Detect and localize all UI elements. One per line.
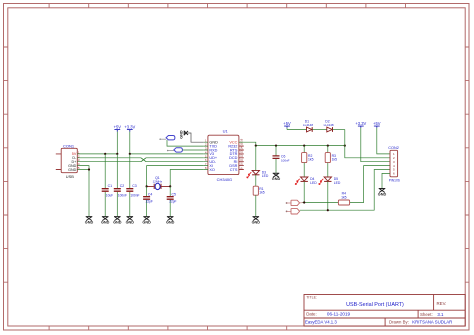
ground (C4) — [143, 217, 150, 221]
power flag +5V (diode feed) — [283, 121, 306, 130]
wire crossover X — [141, 158, 146, 162]
ground (CON2) — [379, 189, 386, 193]
svg-text:3.1: 3.1 — [437, 312, 444, 317]
svg-text:+3.3V: +3.3V — [355, 121, 366, 126]
svg-text:C3: C3 — [132, 184, 137, 188]
wire R4 row — [303, 166, 391, 203]
ground (C5) — [167, 217, 174, 221]
power flag +3.3V (left) — [124, 124, 135, 154]
resistor R1 — [253, 186, 265, 216]
power flag +5V (left) — [114, 124, 122, 154]
node 5V-C2 — [116, 153, 118, 155]
capacitor C5 — [167, 186, 177, 216]
svg-text:LED: LED — [310, 181, 317, 185]
svg-text:Sheet:: Sheet: — [420, 312, 433, 317]
svg-text:CH340G: CH340G — [217, 177, 233, 182]
svg-text:TITLE:: TITLE: — [306, 296, 317, 300]
svg-text:XO: XO — [209, 168, 215, 172]
svg-text:U1: U1 — [223, 129, 229, 134]
svg-text:C5: C5 — [172, 192, 177, 196]
svg-text:CON2: CON2 — [388, 146, 399, 150]
svg-text:22pF: 22pF — [146, 200, 153, 204]
wire XI from U1 to crystal — [147, 166, 204, 187]
ground (U1 pin1, sideways) — [180, 130, 188, 139]
svg-text:06-11-2019: 06-11-2019 — [327, 311, 351, 316]
ground (C2) — [114, 217, 121, 221]
power flag +5V (right) — [373, 121, 390, 154]
svg-text:1k5: 1k5 — [308, 158, 314, 162]
diode D2 LL4148 — [324, 120, 345, 132]
svg-text:LED: LED — [262, 174, 269, 178]
resistor R4 — [338, 192, 349, 205]
net flag RXD — [167, 148, 204, 152]
ground (C6) — [273, 173, 280, 177]
capacitor C3 — [126, 154, 139, 216]
wire XO from U1 to crystal — [170, 170, 204, 187]
wire 5V net — [77, 153, 117, 155]
svg-text:100nF: 100nF — [130, 193, 139, 197]
wire V3 net row — [130, 153, 204, 155]
svg-text:22pF: 22pF — [169, 200, 176, 204]
svg-text:C2: C2 — [120, 184, 125, 188]
svg-text:CTS: CTS — [230, 168, 238, 172]
LED D3 — [247, 146, 269, 187]
node 5V-C1 — [104, 153, 106, 155]
node CON1 gnd junction — [88, 168, 90, 170]
ground (R1) — [253, 217, 260, 221]
svg-text:+5V: +5V — [373, 121, 381, 126]
wire second flag row to CON2 pin5 — [300, 170, 390, 211]
ground (C1) — [102, 217, 109, 221]
LED D5 — [319, 177, 341, 210]
node D4 to flag row — [303, 201, 305, 203]
net flag TXD — [159, 136, 203, 147]
svg-text:+3.3V: +3.3V — [124, 124, 135, 129]
wire U1 GND pin to sideways ground — [188, 133, 204, 142]
node VCC-R2 — [303, 145, 305, 147]
ground (CON1) — [86, 217, 93, 221]
svg-text:LED: LED — [334, 181, 341, 185]
svg-text:100nF: 100nF — [281, 158, 290, 162]
capacitor C1 — [102, 154, 113, 216]
svg-text:GND: GND — [68, 168, 77, 172]
node VCC-R3 — [327, 145, 329, 147]
svg-text:GND: GND — [180, 130, 184, 139]
capacitor C2 — [114, 154, 127, 216]
wire CON2 pin6 to ground — [382, 173, 390, 188]
power flag +3.3V (right) — [355, 121, 390, 162]
node V3-C3 — [129, 153, 131, 155]
ground (C3) — [127, 217, 134, 221]
svg-text:+5V: +5V — [114, 124, 122, 129]
svg-text:Drawn By:: Drawn By: — [389, 319, 409, 324]
svg-text:PIN1X6: PIN1X6 — [389, 178, 400, 182]
svg-text:LL4148: LL4148 — [303, 123, 313, 127]
node D5 to flag row — [327, 209, 329, 211]
wire CON1 GND pins to ground — [77, 166, 89, 217]
svg-text:USB: USB — [66, 174, 74, 179]
TITLE-BLOCK — [304, 295, 465, 327]
IC U1 CH340G — [204, 129, 244, 182]
svg-text:EasyEDA V4.1.3: EasyEDA V4.1.3 — [305, 319, 337, 324]
net flag (to second row) — [286, 209, 300, 214]
svg-text:C1: C1 — [108, 184, 113, 188]
svg-text:LL4148: LL4148 — [324, 123, 334, 127]
svg-text:USB-Serial Port (UART): USB-Serial Port (UART) — [346, 302, 404, 308]
svg-text:Date:: Date: — [306, 311, 317, 316]
svg-text:GND: GND — [272, 177, 281, 181]
wire diode output to VCC node and CON2 pin2 — [345, 130, 390, 158]
capacitor C6 — [273, 146, 290, 173]
crystal Q1 12MHz — [147, 176, 171, 189]
svg-text:C4: C4 — [148, 192, 153, 196]
wire UD- row — [146, 161, 204, 163]
svg-text:GND: GND — [378, 192, 387, 196]
connector CON1 — [56, 143, 80, 179]
svg-text:GND: GND — [85, 221, 94, 225]
node VCC-C6 — [275, 145, 277, 147]
node VCC-D3 — [255, 145, 257, 147]
capacitor C4 — [143, 186, 153, 216]
svg-text:1k5: 1k5 — [259, 191, 265, 195]
svg-text:GND: GND — [252, 221, 261, 225]
svg-text:GND: GND — [166, 221, 175, 225]
svg-text:GND: GND — [126, 221, 135, 225]
svg-text:GND: GND — [142, 221, 151, 225]
wire VCC net from U1 — [244, 142, 345, 145]
svg-text:CON1: CON1 — [63, 143, 75, 148]
svg-text:100nF: 100nF — [118, 193, 127, 197]
svg-text:GND: GND — [101, 221, 110, 225]
wire D- to crossover — [77, 157, 141, 159]
svg-text:+5V: +5V — [283, 121, 291, 126]
svg-text:KRITSANA SUDLAR: KRITSANA SUDLAR — [412, 319, 452, 324]
node crystal right — [169, 185, 171, 187]
resistor R3 — [325, 146, 337, 177]
node crystal left — [146, 185, 148, 187]
node VCC-diode feed — [344, 145, 346, 147]
net flag (to R4 row) — [286, 200, 304, 205]
svg-text:GND: GND — [113, 221, 122, 225]
diode D1 LL4148 — [303, 120, 327, 132]
wire D+ to crossover — [77, 161, 141, 163]
wire UD+ row — [146, 157, 204, 159]
connector CON2 — [388, 146, 400, 182]
svg-text:12MHz: 12MHz — [153, 179, 163, 183]
svg-text:1k5: 1k5 — [341, 195, 347, 199]
svg-text:REV.: REV. — [437, 301, 447, 306]
resistor R2 — [302, 146, 314, 177]
svg-text:1k5: 1k5 — [332, 158, 338, 162]
svg-text:10uF: 10uF — [106, 193, 113, 197]
LED D4 — [295, 177, 317, 203]
